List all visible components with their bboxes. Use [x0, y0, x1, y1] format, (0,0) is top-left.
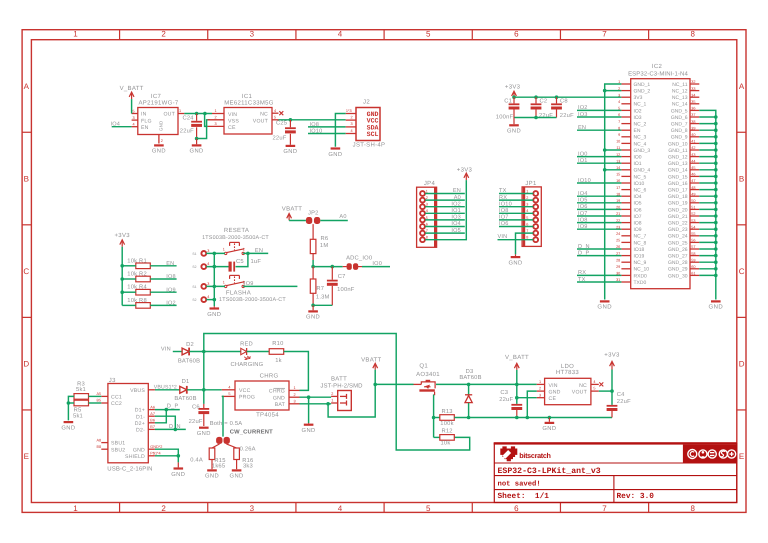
svg-text:BAT60B: BAT60B — [178, 358, 200, 365]
svg-text:1: 1 — [331, 399, 333, 403]
svg-text:LDO: LDO — [561, 363, 574, 370]
svg-text:VIN: VIN — [549, 383, 558, 389]
svg-text:C: C — [23, 267, 29, 276]
svg-text:4: 4 — [133, 123, 135, 127]
svg-text:8: 8 — [690, 504, 695, 513]
wire IC1 CE to VIN node — [205, 114, 208, 127]
svg-text:C7: C7 — [338, 273, 346, 280]
capacitor C7 100nF — [327, 267, 355, 306]
svg-text:52: 52 — [691, 212, 695, 216]
svg-text:57: 57 — [691, 245, 695, 249]
junction at C25 top — [289, 118, 293, 122]
supply VBATT at battery — [361, 356, 381, 369]
svg-text:1: 1 — [223, 280, 225, 284]
wire Q1 drain to LDO VIN — [436, 383, 537, 385]
svg-text:CHARGING: CHARGING — [230, 361, 263, 368]
svg-text:HT7833: HT7833 — [556, 369, 580, 376]
resistor R1 10k — [127, 257, 150, 268]
wire JP2 to A0 — [320, 214, 348, 221]
wire rail to R2 — [122, 278, 136, 280]
capacitor C4 22uF — [607, 391, 631, 417]
wire JP1 pin7 to ground — [516, 233, 534, 254]
wire D1+ to D_P — [155, 404, 180, 410]
svg-text:IO9: IO9 — [634, 227, 642, 233]
svg-text:GND_24: GND_24 — [668, 234, 688, 240]
svg-text:GND_5: GND_5 — [671, 108, 688, 114]
junction button bus 2 — [213, 265, 217, 269]
svg-text:GND_17: GND_17 — [668, 188, 688, 194]
svg-text:+3V3: +3V3 — [505, 84, 521, 91]
svg-text:IO4: IO4 — [634, 194, 642, 200]
net label IO8 at J2 — [310, 122, 320, 128]
ground under IC2 right — [709, 300, 724, 310]
svg-text:22uF: 22uF — [180, 127, 194, 134]
svg-text:GND: GND — [549, 389, 561, 395]
wire R1 to net EN — [150, 261, 176, 267]
svg-text:3k3: 3k3 — [243, 462, 253, 469]
svg-text:GND: GND — [597, 304, 612, 311]
svg-text:NC: NC — [579, 383, 587, 389]
svg-text:CE: CE — [549, 396, 557, 402]
svg-text:GND: GND — [159, 121, 164, 131]
wire R4 to net IO9 — [150, 287, 176, 293]
label Both = 0.5A — [210, 420, 243, 427]
svg-text:32: 32 — [691, 80, 695, 84]
title text ESP32-C3-LPKit_ant_v3 — [498, 467, 601, 476]
svg-text:JP4: JP4 — [424, 180, 436, 187]
svg-text:GND: GND — [508, 259, 522, 266]
junction D3 top — [467, 383, 471, 387]
svg-text:43: 43 — [691, 153, 695, 157]
svg-text:S2: S2 — [192, 265, 196, 269]
net label TX at IC2 — [577, 277, 621, 283]
wire R5 to CC2 — [89, 402, 102, 404]
junction C3 bottom — [515, 416, 519, 420]
net label D_P at IC2 — [577, 250, 621, 256]
junction C1 top — [512, 95, 516, 99]
svg-text:C1: C1 — [504, 98, 512, 105]
wire charge node to R12 loop — [204, 334, 470, 451]
svg-text:IN: IN — [141, 112, 147, 118]
svg-text:Rev: 3.0: Rev: 3.0 — [617, 492, 655, 501]
resistor R2 10k — [127, 271, 150, 282]
wire TP4054 PROG to jumper — [222, 396, 223, 436]
svg-text:GND: GND — [306, 314, 320, 321]
svg-text:10k R8: 10k R8 — [127, 297, 147, 304]
ground under CC resistors — [61, 421, 75, 431]
svg-text:28: 28 — [616, 258, 620, 262]
wire VBATT to JP2 — [289, 219, 306, 221]
svg-text:GND: GND — [133, 447, 145, 453]
ground under buttons — [207, 306, 221, 318]
svg-text:+3V3: +3V3 — [115, 232, 131, 239]
svg-text:GND: GND — [507, 128, 521, 135]
IC charger TP4054 — [222, 372, 300, 418]
svg-text:VOUT: VOUT — [253, 118, 269, 124]
svg-text:22uF: 22uF — [189, 418, 203, 425]
svg-text:GND_14: GND_14 — [668, 168, 688, 174]
junction IC2 GND_4 — [603, 168, 607, 172]
svg-text:10k: 10k — [441, 440, 451, 447]
net label IO10 at J2 — [310, 129, 323, 135]
svg-text:GND: GND — [709, 304, 724, 311]
svg-text:C4: C4 — [617, 391, 625, 398]
wire R8 to net IO2 — [150, 301, 176, 307]
label CW_CURRENT — [230, 429, 273, 436]
resistor R6 1M — [310, 224, 328, 260]
svg-text:51: 51 — [691, 206, 695, 210]
svg-text:38: 38 — [691, 120, 695, 124]
svg-text:C6: C6 — [192, 404, 200, 411]
svg-text:IO6: IO6 — [634, 207, 642, 213]
svg-text:EN: EN — [634, 128, 641, 134]
svg-text:B: B — [739, 174, 744, 183]
svg-text:B8: B8 — [97, 445, 102, 449]
svg-text:S1: S1 — [192, 252, 196, 256]
svg-text:C5: C5 — [236, 258, 244, 265]
supply +3V3 at JP4 — [457, 166, 473, 180]
svg-text:NC_5: NC_5 — [634, 174, 647, 180]
junction V_BATT rail — [515, 383, 519, 387]
svg-text:24: 24 — [616, 232, 620, 236]
svg-text:D2+: D2+ — [135, 421, 145, 427]
svg-text:VSS: VSS — [228, 118, 239, 124]
junction D_N — [174, 428, 178, 432]
wire D1- to D_N — [155, 416, 175, 429]
svg-text:CE: CE — [228, 125, 236, 131]
resistor R13 100k — [434, 408, 455, 427]
svg-text:GND: GND — [190, 148, 204, 155]
svg-text:D2: D2 — [186, 341, 194, 348]
net label IO4 at JP4 — [425, 221, 465, 227]
wire C5 to EN net — [236, 253, 248, 266]
wire button ground bus — [206, 253, 228, 306]
svg-text:15: 15 — [616, 173, 620, 177]
svg-text:NC_13: NC_13 — [672, 95, 688, 101]
wire CC resistors to ground — [68, 396, 74, 420]
svg-text:R13: R13 — [442, 408, 453, 415]
svg-text:ESP32-C3-MINI-1-N4: ESP32-C3-MINI-1-N4 — [628, 70, 688, 77]
svg-text:IO0: IO0 — [634, 155, 642, 161]
module IC2 ESP32-C3-MINI-1-N4 — [616, 63, 699, 289]
svg-text:USB-C_2-16PIN: USB-C_2-16PIN — [107, 465, 152, 472]
svg-text:A6: A6 — [150, 405, 155, 409]
net label IO2 at JP4 — [425, 201, 465, 207]
svg-text:D1-: D1- — [136, 414, 145, 420]
junction button bus 1 — [213, 252, 217, 256]
svg-text:1TS003B-2000-3500A-CT: 1TS003B-2000-3500A-CT — [202, 235, 269, 241]
wire rail to R1 — [122, 265, 136, 267]
svg-text:GND_15: GND_15 — [668, 174, 688, 180]
net label VIN — [161, 346, 182, 352]
svg-text:VIN: VIN — [161, 346, 171, 352]
connector J3 USB-C 2-16PIN — [97, 377, 163, 473]
svg-text:3V3: 3V3 — [634, 95, 643, 101]
svg-text:NC_12: NC_12 — [672, 89, 688, 95]
net label IO4 — [111, 121, 121, 127]
wire divider ground row — [313, 304, 332, 306]
wire V_BATT to rail and C3 — [516, 370, 518, 404]
svg-text:VBATT: VBATT — [361, 356, 381, 363]
svg-text:5: 5 — [274, 116, 276, 120]
ground under LDO rail — [542, 418, 556, 433]
svg-text:IO8: IO8 — [634, 221, 642, 227]
svg-text:JP1: JP1 — [525, 180, 537, 187]
wire battery minus to ground — [309, 396, 332, 398]
svg-text:4: 4 — [338, 504, 343, 513]
wire D1 to VBUS node — [187, 389, 222, 391]
wire IC7 OUT to IC1 VIN — [184, 113, 212, 115]
svg-text:not saved!: not saved! — [498, 479, 541, 488]
svg-text:25: 25 — [616, 239, 620, 243]
svg-text:1M: 1M — [320, 243, 328, 249]
svg-text:BATT: BATT — [331, 376, 347, 383]
junction on pullup rail — [120, 290, 124, 294]
net label RX at JP1 — [499, 195, 533, 201]
svg-text:45: 45 — [691, 166, 695, 170]
svg-text:33: 33 — [691, 87, 695, 91]
net label EN at IC2 — [577, 125, 621, 131]
net label IO3 at JP4 — [425, 215, 465, 221]
svg-text:10k R2: 10k R2 — [127, 271, 147, 278]
svg-text:5k1: 5k1 — [76, 386, 86, 393]
junction at C24 bottom / ground — [195, 137, 199, 141]
wire IC1 VSS to ground node — [197, 120, 210, 139]
svg-text:1: 1 — [215, 109, 217, 113]
svg-text:5: 5 — [228, 392, 230, 396]
svg-text:5: 5 — [133, 109, 135, 113]
svg-text:IO7: IO7 — [634, 214, 642, 220]
svg-text:OUT: OUT — [163, 112, 175, 118]
wire R6 to divider node — [312, 260, 314, 267]
svg-text:GND: GND — [302, 427, 316, 434]
wire LDO VOUT to +3V3 — [599, 390, 612, 392]
svg-text:1: 1 — [539, 380, 541, 384]
wire rail to R8 — [122, 304, 136, 306]
net label D_N at IC2 — [577, 244, 621, 250]
wire +3V3 rail to IC2 3V3 pin — [514, 96, 621, 98]
junction Q1 gate at R13 — [432, 416, 436, 420]
net label RX at IC2 — [577, 270, 621, 276]
svg-text:TP4054: TP4054 — [256, 412, 279, 419]
svg-text:1TS003B-2000-3500A-CT: 1TS003B-2000-3500A-CT — [219, 297, 286, 303]
connector JP4 header — [417, 180, 437, 247]
wire battery to VBATT rail — [328, 370, 375, 417]
wire J3 SHIELD to ground — [155, 455, 178, 457]
svg-text:VBATT: VBATT — [282, 205, 302, 212]
svg-text:TXD0: TXD0 — [634, 280, 647, 286]
svg-text:D1: D1 — [182, 379, 190, 385]
capacitor C25 22uF — [273, 120, 296, 145]
junction EN at C5 — [246, 252, 250, 256]
svg-text:SHIELD: SHIELD — [125, 454, 145, 460]
svg-text:49: 49 — [691, 192, 695, 196]
resistor R8 10k — [127, 297, 150, 308]
logo heart bitscratch — [500, 446, 550, 461]
resistor R3 5k1 — [74, 380, 89, 399]
svg-text:58: 58 — [691, 252, 695, 256]
svg-text:2: 2 — [161, 29, 166, 38]
svg-text:2: 2 — [215, 116, 217, 120]
svg-text:GND_29: GND_29 — [668, 267, 688, 273]
switch FLASHA 1TS003B — [192, 275, 286, 303]
net label IO6 at JP1 — [499, 221, 533, 227]
ground under J3 — [171, 462, 185, 477]
svg-text:5: 5 — [426, 504, 431, 513]
title text Rev 3.0 — [617, 492, 655, 501]
svg-text:GND: GND — [61, 424, 75, 431]
svg-text:IO3: IO3 — [634, 115, 642, 121]
svg-text:Sheet: 1/1: Sheet: 1/1 — [498, 492, 550, 501]
net label IO9 at IC2 — [577, 224, 621, 230]
svg-text:IO8: IO8 — [166, 274, 176, 280]
net label IO0 at IC2 — [577, 151, 621, 157]
svg-text:C3: C3 — [500, 389, 508, 396]
svg-text:JST-SH-4P: JST-SH-4P — [353, 142, 386, 149]
svg-text:Both = 0.5A: Both = 0.5A — [210, 420, 243, 427]
solder jumper ADC_IO0 — [343, 254, 373, 270]
svg-text:35: 35 — [691, 100, 695, 104]
wire IO4 to IC7 EN pin — [112, 126, 132, 128]
svg-text:47: 47 — [691, 179, 695, 183]
wire D2 to charge node — [189, 351, 240, 353]
wire R2 to net IO8 — [150, 274, 176, 280]
wire +3V3 pullup rail — [121, 247, 123, 306]
svg-text:V_BATT: V_BATT — [120, 85, 144, 92]
svg-text:22uF: 22uF — [499, 396, 513, 403]
svg-text:GND_4: GND_4 — [634, 168, 651, 174]
svg-text:R10: R10 — [272, 340, 283, 347]
svg-text:GND_13: GND_13 — [668, 161, 688, 167]
svg-text:R7: R7 — [316, 286, 324, 292]
junction CC ground — [67, 401, 71, 405]
net label IO7 at JP1 — [499, 215, 533, 221]
svg-text:CC1: CC1 — [111, 395, 122, 401]
net label IO8 at JP1 — [499, 208, 533, 214]
svg-text:A0: A0 — [339, 214, 346, 220]
ground under C24 — [190, 139, 204, 155]
wire VBUS node vertical — [203, 352, 205, 390]
svg-text:40: 40 — [691, 133, 695, 137]
junction divider ground — [311, 304, 315, 308]
svg-text:GND_23: GND_23 — [668, 227, 688, 233]
svg-text:39: 39 — [691, 126, 695, 130]
svg-text:A: A — [24, 82, 30, 91]
svg-text:GND_22: GND_22 — [668, 221, 688, 227]
ground under C6 — [197, 427, 211, 437]
svg-text:GND_11: GND_11 — [668, 148, 687, 154]
resistor R10 1k — [269, 340, 284, 364]
svg-text:61: 61 — [691, 272, 695, 276]
svg-text:GND_30: GND_30 — [668, 273, 688, 279]
solder jumper JP2 — [306, 210, 320, 224]
svg-text:100nF: 100nF — [496, 114, 514, 121]
transistor Q1 AO3401 — [414, 362, 441, 394]
wire divider node row — [313, 266, 343, 268]
svg-text:1: 1 — [73, 29, 78, 38]
svg-text:Q1: Q1 — [419, 362, 428, 369]
svg-text:GND_25: GND_25 — [668, 240, 688, 246]
svg-text:S2: S2 — [192, 298, 196, 302]
IC LDO HT7833 — [537, 363, 599, 405]
svg-text:4: 4 — [274, 109, 276, 113]
svg-text:5k1: 5k1 — [73, 413, 83, 420]
no-connect on LDO NC pin — [599, 382, 603, 386]
svg-text:D2-: D2- — [136, 428, 145, 434]
svg-text:4: 4 — [207, 262, 209, 266]
svg-text:29: 29 — [616, 265, 620, 269]
svg-text:10k R4: 10k R4 — [127, 284, 147, 291]
svg-text:NC_3: NC_3 — [634, 135, 647, 141]
switch RESETA 1TS003B — [192, 227, 269, 269]
supply V_BATT at LDO — [505, 354, 529, 370]
wire VBATT rail to Q1 — [375, 383, 413, 385]
svg-text:22uF: 22uF — [617, 398, 631, 405]
svg-text:4: 4 — [338, 29, 343, 38]
net label IO7 at IC2 — [577, 211, 621, 217]
svg-text:J2: J2 — [363, 99, 370, 106]
svg-text:56: 56 — [691, 239, 695, 243]
svg-text:9: 9 — [618, 133, 620, 137]
connector J2 JST-SH-4P — [346, 99, 386, 149]
svg-text:3: 3 — [250, 504, 255, 513]
ground under divider — [306, 305, 320, 320]
ground under C1 — [507, 118, 521, 135]
wire IC2 left GND pins to ground — [605, 84, 622, 300]
net label IO6 at IC2 — [577, 204, 621, 210]
svg-text:1: 1 — [73, 504, 78, 513]
svg-text:P$1*4: P$1*4 — [150, 452, 160, 456]
svg-text:IC2: IC2 — [652, 63, 663, 70]
svg-text:+3V3: +3V3 — [457, 166, 473, 173]
svg-text:IO19: IO19 — [634, 254, 645, 260]
junction C2 bottom — [534, 116, 538, 120]
svg-text:IO5: IO5 — [634, 201, 642, 207]
svg-text:GND: GND — [205, 473, 219, 480]
svg-text:GND_19: GND_19 — [668, 201, 688, 207]
svg-text:4: 4 — [593, 380, 595, 384]
title block border — [494, 442, 737, 502]
svg-text:SBU2: SBU2 — [111, 447, 125, 453]
svg-text:IO9: IO9 — [166, 287, 176, 293]
ground under R15 — [205, 469, 219, 479]
svg-text:GND_10: GND_10 — [668, 141, 688, 147]
svg-text:2: 2 — [161, 139, 163, 143]
svg-text:D3: D3 — [466, 368, 474, 375]
capacitor C6 22uF — [189, 390, 210, 426]
svg-text:NC_11: NC_11 — [672, 82, 687, 88]
ground under IC2 left — [597, 300, 612, 310]
wire TP4054 BAT to battery plus — [300, 403, 332, 405]
junction TP4054 GND — [307, 395, 311, 399]
svg-text:3: 3 — [294, 400, 296, 404]
svg-text:D1+: D1+ — [135, 408, 145, 414]
svg-text:22uF: 22uF — [560, 112, 574, 119]
ground under J2 — [328, 147, 342, 157]
svg-text:1: 1 — [223, 247, 225, 251]
svg-text:GND_9: GND_9 — [671, 135, 688, 141]
svg-text:NC_2: NC_2 — [634, 122, 647, 128]
svg-text:IO2: IO2 — [634, 108, 642, 114]
wire JP4 pin8 to +3V3 — [425, 180, 466, 240]
svg-text:3: 3 — [207, 249, 209, 253]
svg-text:2: 2 — [161, 504, 166, 513]
svg-text:R6: R6 — [321, 235, 329, 242]
svg-text:48: 48 — [691, 186, 695, 190]
svg-text:A7: A7 — [150, 412, 155, 416]
wire J3 GND to ground — [155, 449, 178, 462]
svg-text:AO3401: AO3401 — [416, 371, 440, 378]
